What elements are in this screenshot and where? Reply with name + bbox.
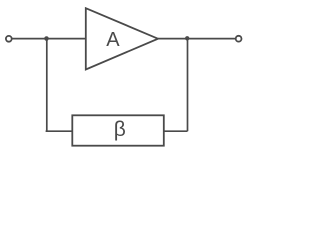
feedback block β	[72, 115, 164, 145]
wire feedback right horizontal	[164, 130, 188, 132]
svg-text:β: β	[114, 118, 126, 141]
node output junction	[185, 36, 189, 40]
op-amp A triangle	[86, 8, 158, 69]
svg-text:A: A	[106, 29, 120, 51]
output terminal	[236, 36, 242, 42]
wire feedback left horizontal	[46, 130, 73, 132]
input terminal	[6, 36, 12, 42]
wire feedback left vertical	[46, 39, 48, 132]
wire output	[158, 38, 235, 40]
node input junction	[44, 36, 49, 41]
wire feedback right vertical	[187, 39, 189, 132]
wire input	[12, 38, 86, 40]
